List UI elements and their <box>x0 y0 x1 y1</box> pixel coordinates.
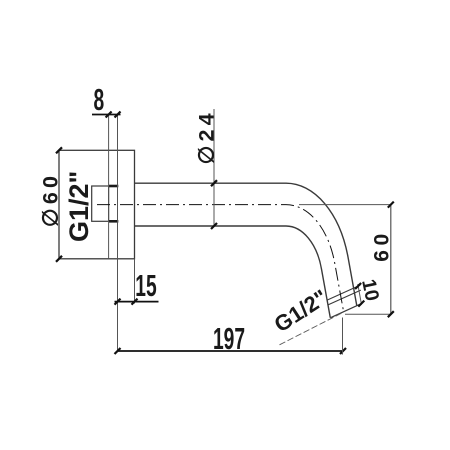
centerline dash-dot <box>97 205 344 312</box>
extension line for 197 right end <box>342 318 344 355</box>
extension line 60 bottom (outlet level) <box>345 313 391 315</box>
thread line A at outlet <box>327 285 360 300</box>
pipe bottom edge <box>135 226 331 318</box>
wall surface thick marks <box>109 186 119 221</box>
thread port rectangle G1/2 inlet <box>92 186 109 221</box>
pipe top edge <box>135 183 357 306</box>
dimension phi60 ticks on flange left edge <box>56 147 62 153</box>
tick <box>355 283 361 289</box>
tick <box>388 202 394 208</box>
extension line: thread back face x=108.6 <box>108 115 110 259</box>
dimension 197: dim line <box>118 350 344 352</box>
outlet end face <box>330 303 362 318</box>
svg-text:∅60: ∅60 <box>39 172 63 227</box>
tick <box>340 348 346 354</box>
dimension phi24: dim line <box>213 109 215 226</box>
extension line: flange front face x=134.5 <box>134 259 136 304</box>
svg-text:15: 15 <box>135 270 156 304</box>
wall flange plate (escutcheon), side view <box>59 150 135 258</box>
dimension 8: dim line <box>92 114 121 116</box>
tick <box>358 301 364 307</box>
tick <box>211 180 217 186</box>
svg-text:8: 8 <box>93 84 104 118</box>
dimension 60: dim line <box>390 205 392 315</box>
tick <box>106 112 112 118</box>
extension line 60 top (centerline level) <box>299 204 391 206</box>
tick <box>115 299 121 305</box>
svg-text:60: 60 <box>371 229 394 261</box>
tick <box>115 348 121 354</box>
tick <box>115 112 121 118</box>
svg-text:G1/2": G1/2" <box>64 171 94 242</box>
svg-text:10: 10 <box>357 277 383 303</box>
svg-text:197: 197 <box>213 322 245 356</box>
svg-text:∅24: ∅24 <box>194 109 218 164</box>
leader line for outlet G1/2" <box>280 312 344 345</box>
extension line: wall plane x=117.5 <box>117 115 119 353</box>
dimension 15: dim line <box>115 301 159 303</box>
thread line B at outlet <box>328 290 361 305</box>
tick <box>388 311 394 317</box>
tick <box>211 223 217 229</box>
dimension 10: dim line <box>358 284 362 305</box>
svg-text:G1/2": G1/2" <box>270 285 332 338</box>
tick <box>132 299 138 305</box>
